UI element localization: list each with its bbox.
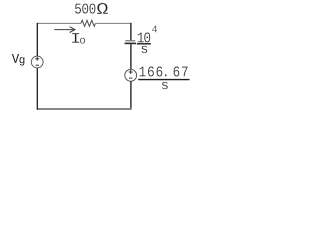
V2 minus sign: [129, 77, 132, 79]
voltage source Vg circle: [31, 56, 43, 68]
source label Vg: [12, 54, 24, 65]
source V2 value label 166.67/s: [140, 66, 188, 89]
wire: source V2 to bottom-right corner: [130, 81, 132, 109]
capacitor C1 bottom plate: [125, 42, 137, 44]
resistor R1 500-ohm zigzag: [81, 20, 96, 26]
wire: capacitor to source V2: [130, 44, 132, 69]
Vg plus sign: [35, 57, 39, 61]
wire: right side down to capacitor: [130, 23, 132, 40]
V2 plus sign: [129, 70, 133, 74]
fraction bar of 166.67/s: [138, 79, 189, 81]
capacitor C1 top plate: [125, 40, 135, 42]
current label Io: [72, 33, 85, 44]
Vg minus sign: [36, 64, 39, 66]
voltage source V2 (166.67/s) circle: [125, 69, 137, 81]
capacitor impedance label 10^4/s: [138, 26, 157, 53]
resistor value label 500Ω: [75, 3, 108, 14]
wire: bottom-left corner up to source Vg: [36, 68, 38, 110]
wire: top-left horizontal segment: [37, 22, 81, 24]
wire: resistor to top-right corner: [95, 22, 131, 24]
current Io arrow: [54, 27, 75, 33]
fraction bar of 10^4/s: [137, 43, 151, 45]
wire: source Vg up to top-left corner: [36, 23, 38, 56]
wire: bottom horizontal: [37, 108, 132, 110]
